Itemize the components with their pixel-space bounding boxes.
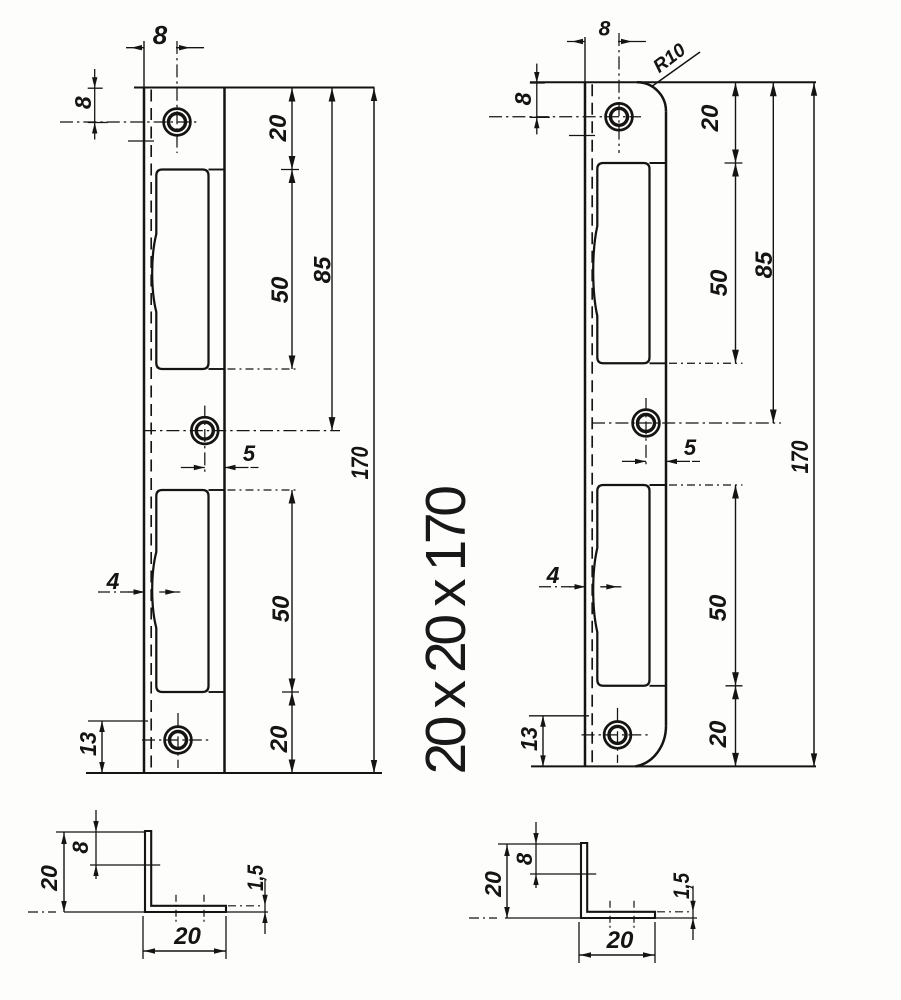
left figure dim 4 (bend depth) [98, 568, 180, 595]
left figure left edge extension above [143, 41, 145, 88]
left figure bottom hole centerlines [142, 713, 212, 768]
svg-text:8: 8 [512, 852, 537, 865]
right figure plate outline [585, 82, 666, 766]
right figure lower cutout edge extensions [650, 485, 667, 686]
left figure middle screw hole [191, 417, 218, 444]
left figure dim 85 [310, 88, 337, 431]
right angle section dim 1,5 thickness [669, 872, 696, 940]
left angle section L-angle profile outline [145, 831, 226, 912]
svg-text:50: 50 [268, 595, 295, 622]
svg-text:50: 50 [267, 276, 294, 303]
right angle section L-angle profile outline [581, 843, 655, 918]
svg-text:R10: R10 [649, 39, 690, 77]
left angle section bottom dash-dot tail [28, 911, 56, 913]
svg-text:5: 5 [243, 441, 256, 466]
right figure dim 85 [751, 82, 778, 423]
svg-text:4: 4 [106, 568, 120, 594]
svg-text:85: 85 [751, 251, 778, 278]
svg-text:20 x 20 x 170: 20 x 20 x 170 [414, 487, 478, 775]
right angle section top extension line [498, 843, 581, 845]
right figure dim 13 (bottom hole) [516, 716, 589, 767]
right figure middle hole centerlines [592, 398, 781, 467]
svg-text:1,5: 1,5 [243, 864, 268, 891]
right figure left edge extension above [584, 37, 586, 82]
right angle section bottom dash-dot tail [469, 917, 497, 919]
left figure bottom screw hole [165, 727, 192, 754]
right figure dim 50 lower [669, 485, 743, 686]
left angle section dim 20 height [36, 832, 67, 912]
right figure dim 20 bottom right [705, 686, 743, 767]
right angle section leg bottom extension [655, 917, 697, 919]
right figure fold dashed line [591, 84, 593, 764]
right figure lower latch cutout [593, 485, 649, 686]
right figure top screw hole [606, 103, 633, 130]
right figure middle screw hole [633, 410, 660, 437]
right figure tick below top hole [569, 135, 595, 137]
right angle section leg top dash extension [657, 911, 689, 913]
right figure dim 4 (bend depth) [539, 562, 621, 590]
left figure plate outline [144, 88, 225, 774]
right figure dim 5 (middle hole to edge) [622, 435, 704, 464]
svg-text:170: 170 [347, 446, 374, 480]
left figure upper cutout edge extensions [209, 170, 225, 370]
right figure dim 8 left (hole to top edge) [510, 64, 550, 135]
svg-text:20: 20 [480, 871, 506, 898]
svg-text:4: 4 [546, 562, 560, 588]
left figure lower cutout edge extensions [209, 490, 225, 692]
right angle section dim 20 height [480, 844, 510, 918]
right figure dim 170 [787, 82, 817, 766]
svg-text:8: 8 [153, 20, 168, 50]
left figure dim 50 upper [228, 170, 300, 370]
right figure upper cutout edge extensions [650, 163, 667, 363]
svg-text:20: 20 [36, 865, 62, 892]
right figure upper latch cutout [593, 163, 649, 363]
svg-text:20: 20 [173, 923, 201, 950]
svg-text:20: 20 [265, 114, 292, 142]
left figure dim 20 bottom right [266, 692, 299, 773]
right figure top hole centerlines [489, 33, 641, 153]
left figure lower latch cutout [152, 490, 208, 692]
left figure dim 50 lower [228, 490, 300, 692]
right angle section hole centerline ticks on leg [610, 901, 634, 928]
left angle section top extension line [56, 831, 145, 833]
left figure dim 8 top (hole offset) [126, 20, 204, 50]
svg-text:13: 13 [75, 732, 101, 756]
R10 leader line [651, 52, 700, 87]
left figure dim 20 top right [265, 88, 299, 170]
left figure dim 170 [347, 88, 377, 774]
svg-text:170: 170 [787, 440, 814, 474]
left figure plate top edge + extension [134, 87, 375, 89]
svg-text:50: 50 [706, 269, 733, 296]
left angle section dim 1,5 thickness [243, 864, 268, 934]
left angle section bottom extension line [64, 911, 145, 913]
right figure dim 50 upper [669, 163, 743, 363]
svg-text:20: 20 [606, 927, 634, 954]
right angle section bottom extension line [505, 917, 581, 919]
left figure dim 5 (middle hole to edge) [181, 441, 263, 470]
left angle section dim 8 (flange face) [68, 810, 160, 879]
left angle section dim 20 width [143, 916, 226, 959]
left figure dim 13 (bottom hole) [75, 721, 148, 773]
left figure fold dashed line [150, 90, 152, 772]
svg-text:20: 20 [266, 725, 293, 753]
left figure top screw hole [164, 109, 191, 136]
right angle section dim 20 width [579, 922, 655, 963]
svg-text:8: 8 [68, 841, 93, 854]
svg-text:20: 20 [697, 104, 724, 132]
svg-text:8: 8 [510, 92, 536, 105]
right figure dim 20 top right [697, 82, 743, 163]
left figure dim 8 left (hole to top edge) [70, 69, 108, 140]
right figure bottom screw hole [604, 722, 631, 749]
svg-text:50: 50 [705, 594, 732, 621]
svg-text:8: 8 [599, 18, 611, 41]
right angle section dim 8 (flange face) [512, 822, 596, 888]
left figure tick below top hole [128, 140, 154, 142]
left figure plate bottom edge + extension [86, 772, 382, 774]
right figure plate bottom edge + extension [531, 765, 816, 767]
left angle section leg top dash extension [228, 905, 260, 907]
right figure plate top edge + extension [530, 81, 816, 83]
svg-text:85: 85 [310, 256, 337, 283]
svg-text:20: 20 [705, 720, 732, 748]
left figure middle hole centerlines [143, 406, 340, 475]
svg-text:8: 8 [70, 96, 96, 109]
left angle section hole centerline ticks on leg [176, 895, 204, 922]
svg-text:1,5: 1,5 [669, 872, 694, 899]
left angle section leg bottom extension [226, 911, 268, 913]
left figure top hole centerlines [60, 41, 199, 153]
left figure upper latch cutout [152, 170, 208, 370]
svg-text:13: 13 [516, 727, 542, 751]
right figure bottom hole centerlines [582, 708, 652, 763]
right figure dim 8 top (hole offset) [567, 18, 646, 45]
svg-text:5: 5 [684, 435, 697, 460]
